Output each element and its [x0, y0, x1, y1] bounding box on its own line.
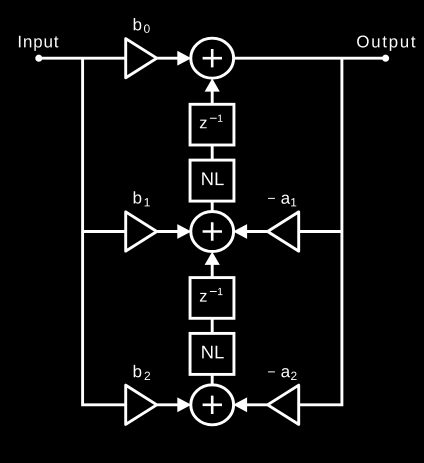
arrowhead into S2 bottom	[205, 252, 220, 265]
arrowhead into S1 left	[177, 51, 191, 66]
nonlinearity box NL1	[190, 160, 234, 201]
label Input	[19, 36, 59, 51]
wire left rail from input line down to bottom row	[83, 58, 127, 405]
summing junction S2	[191, 212, 234, 252]
wire sum S1 to output	[233, 57, 386, 60]
wire z1 to NL1	[211, 145, 214, 160]
amplifier b1	[126, 212, 157, 251]
delay box z1	[190, 104, 234, 145]
wire z2 up to sum S2	[211, 258, 214, 278]
label NL2 value	[202, 346, 224, 359]
amplifier -a1	[268, 212, 299, 251]
summing junction S3	[191, 385, 234, 425]
arrowhead into S1 bottom	[205, 78, 220, 91]
wire -a2 to sum S3	[246, 403, 267, 406]
wire b1 to sum S2	[157, 230, 178, 233]
summing junction S1	[191, 38, 234, 78]
label -a2	[268, 368, 297, 380]
label b1	[134, 191, 150, 206]
arrowhead into S2 right	[233, 224, 247, 239]
plus sign S2	[203, 222, 222, 240]
amplifier b2	[126, 385, 157, 424]
label b0	[134, 18, 150, 33]
label b2	[134, 365, 150, 380]
wire input to b0	[39, 57, 127, 60]
wire b2 to sum S3	[157, 403, 178, 406]
wire NL1 to sum S2	[211, 201, 214, 213]
wire z2 to NL2	[211, 318, 214, 333]
node Output	[382, 55, 389, 62]
label z2 value	[200, 288, 223, 302]
arrowhead into S3 left	[177, 397, 191, 412]
wire right rail from output line down to bottom row	[298, 58, 342, 405]
wire z1 up to sum S1	[211, 84, 214, 104]
wire mid-row right branch	[298, 230, 342, 233]
delay box z2	[190, 278, 234, 319]
amplifier -a2	[268, 385, 299, 424]
amplifier b0	[126, 39, 157, 78]
arrowhead into S3 right	[233, 397, 247, 412]
plus sign S1	[203, 49, 222, 67]
node Input	[35, 55, 42, 62]
plus sign S3	[203, 396, 222, 414]
label Output	[357, 36, 415, 51]
wire b0 to sum S1	[157, 57, 178, 60]
label NL1 value	[202, 172, 224, 185]
wire NL2 to sum S3	[211, 374, 214, 386]
wire -a1 to sum S2	[246, 230, 267, 233]
nonlinearity box NL2	[190, 333, 234, 374]
arrowhead into S2 left	[177, 224, 191, 239]
label -a1	[268, 195, 296, 207]
label z1 value	[200, 115, 223, 129]
wire mid-row left branch	[83, 230, 127, 233]
